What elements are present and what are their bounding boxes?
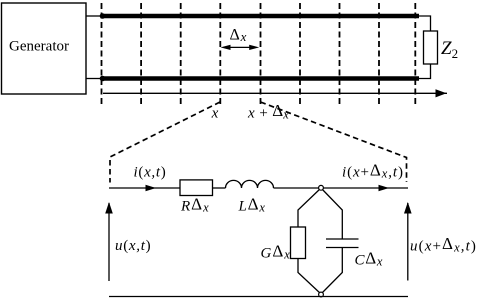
load Z2 box	[424, 31, 438, 64]
C branch wires	[321, 188, 342, 294]
dashed section line 7	[339, 3, 341, 106]
resistor R	[180, 180, 213, 196]
capacitor C bottom plate	[326, 247, 359, 249]
svg-text:x: x	[211, 106, 219, 122]
dashed section line 6	[299, 3, 301, 106]
dashed section line 9	[414, 3, 416, 106]
transmission line top conductor	[101, 14, 419, 19]
svg-text:i(x,t): i(x,t)	[134, 165, 167, 181]
dashed section line 1	[101, 3, 103, 106]
dashed section line 4 (at x)	[219, 3, 221, 106]
dashed section line 2	[140, 3, 142, 106]
wire R to L	[213, 187, 226, 189]
node bottom circle	[319, 292, 324, 297]
wire node to right end	[321, 187, 408, 189]
transmission line bottom conductor	[101, 76, 419, 81]
magnifier dashed line right	[261, 102, 407, 182]
node top circle	[319, 185, 324, 190]
voltage arrow u(x+dx,t)	[404, 202, 412, 281]
svg-text:Δx: Δx	[230, 27, 248, 45]
wire generator to line bottom	[86, 78, 102, 80]
voltage arrow u(x,t)	[105, 202, 113, 281]
junction dot top	[100, 13, 106, 19]
svg-text:Generator: Generator	[9, 39, 69, 55]
current arrow i(x,t)	[146, 185, 157, 191]
junction dot bottom	[100, 76, 106, 82]
wire generator to line top	[86, 15, 102, 17]
x axis arrowhead	[436, 89, 447, 97]
bottom wire	[109, 296, 408, 298]
magnifier dashed line left	[110, 102, 220, 183]
inductor L	[226, 180, 274, 188]
G branch wires	[298, 188, 321, 294]
wire top left segment	[109, 187, 180, 189]
wire L to node	[274, 187, 322, 189]
dashed section line 5 (at x+dx)	[260, 3, 262, 106]
dashed section line 3	[180, 3, 182, 106]
generator box	[2, 3, 87, 94]
capacitor C top plate	[326, 238, 359, 240]
delta-x dimension arrow	[221, 45, 260, 50]
svg-text:u(x,t): u(x,t)	[115, 238, 151, 254]
dashed section line 8	[378, 3, 380, 106]
x axis	[103, 92, 447, 94]
conductance G box	[291, 227, 306, 259]
current arrow i(x+dx,t)	[379, 185, 390, 191]
load Z2 wires	[419, 16, 431, 79]
